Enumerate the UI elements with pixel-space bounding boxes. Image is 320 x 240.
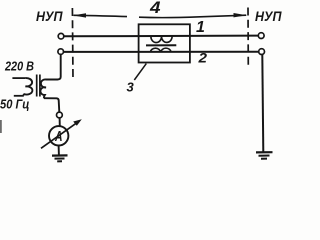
wire ammeter to ground left [58, 146, 60, 156]
wire from secondary bottom to ammeter terminal [44, 98, 59, 112]
scan artifact at left edge [0, 120, 2, 133]
wire 2 (second line) [64, 51, 259, 53]
box of element 3 [139, 24, 190, 62]
ground left [52, 155, 68, 161]
terminal circle wire2 left [58, 49, 64, 55]
mains lead top (220V) [12, 77, 25, 79]
svg-text:3: 3 [127, 80, 135, 95]
svg-text:НУП: НУП [255, 8, 282, 24]
terminal circle wire1 left [58, 33, 64, 39]
terminal circle wire1 right [258, 33, 264, 39]
wire from wire2 left terminal down to secondary top [46, 55, 61, 80]
wire terminal to ammeter [59, 118, 61, 126]
dimension line 4 (left segment with left arrowhead) [73, 13, 127, 17]
svg-text:2: 2 [197, 50, 207, 66]
svg-text:220 В: 220 В [4, 59, 34, 74]
ammeter PA circle [49, 126, 68, 145]
ammeter adjustment arrow [41, 119, 82, 148]
wire 1 (top line) [64, 35, 258, 38]
dashed boundary line left [71, 8, 74, 80]
svg-text:4: 4 [149, 0, 161, 17]
line transformer top winding (inside box, under wire 1) [151, 36, 172, 42]
ground right [256, 152, 273, 159]
line transformer bottom winding (inside box, over wire 2) [150, 48, 171, 52]
svg-text:НУП: НУП [36, 8, 63, 24]
mains lead bottom (220V) [14, 95, 24, 97]
dimension line 4 (right segment with right arrowhead) [139, 13, 247, 18]
line transformer core bar [146, 44, 176, 46]
transformer T primary winding [23, 78, 32, 96]
terminal circle wire2 right [259, 49, 265, 55]
transformer T core lines [37, 75, 40, 97]
terminal circle above ammeter [57, 112, 63, 118]
svg-text:1: 1 [196, 19, 205, 36]
svg-text:50 Гц: 50 Гц [0, 96, 30, 111]
leader line from label 3 to box [134, 64, 146, 80]
wire from wire2 right terminal down to right ground [262, 54, 263, 152]
dashed boundary line right [247, 8, 249, 69]
transformer T secondary winding [40, 79, 46, 98]
